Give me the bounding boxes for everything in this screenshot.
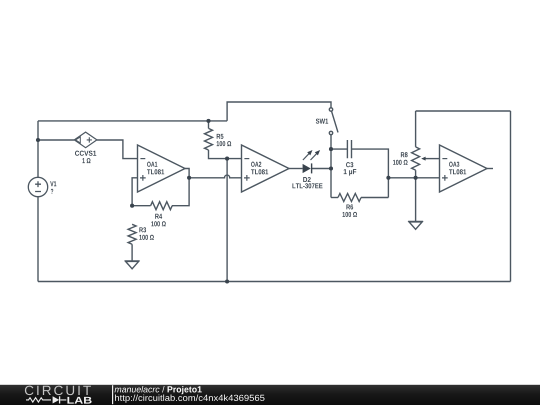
logo doodle wire bbox=[26, 398, 66, 402]
label OA3 bbox=[449, 162, 459, 167]
label C3 value bbox=[344, 169, 357, 175]
footer separator bbox=[112, 385, 114, 404]
LED arrowhead 2 bbox=[315, 150, 320, 155]
logo CIRCUIT bbox=[25, 386, 91, 395]
label R5 bbox=[217, 134, 224, 139]
wire OA1 out to OA2 plus with hop bbox=[189, 175, 241, 178]
op-amp OA1 bbox=[138, 145, 186, 192]
op-amp OA3 bbox=[440, 145, 488, 192]
R8 wiper arrowhead bbox=[421, 157, 425, 161]
junction node OA2 minus bbox=[225, 157, 229, 161]
wire to OA3 plus bbox=[388, 177, 439, 179]
wire C3 right down to R6 bbox=[352, 149, 389, 197]
wire C3 left bbox=[331, 148, 347, 150]
junction node C3 left bbox=[329, 147, 333, 151]
wire left vertical below V1 bbox=[37, 197, 39, 282]
label D2 bbox=[303, 177, 311, 182]
label R3 bbox=[139, 227, 146, 232]
junction node D2 cathode bbox=[329, 166, 333, 170]
junction node bottom rail bbox=[225, 279, 229, 283]
label OA2 bbox=[251, 162, 261, 167]
wire CCVS1 right to OA1 minus bbox=[97, 140, 138, 159]
source CCVS1 bbox=[74, 132, 97, 148]
label R6 bbox=[346, 204, 353, 209]
label R4 value bbox=[151, 221, 166, 226]
wire SW1 bottom vertical bbox=[330, 135, 332, 198]
wire R6 right lead bbox=[361, 197, 388, 199]
wire R8 top lead bbox=[415, 111, 417, 147]
LED arrowhead 1 bbox=[307, 150, 312, 155]
label C3 bbox=[346, 162, 353, 167]
label V1 bbox=[50, 181, 56, 186]
wire R8 bottom lead bbox=[415, 170, 417, 178]
diode D2 cathode bar bbox=[311, 163, 312, 173]
wire jog to upper rail bbox=[227, 102, 331, 121]
label R5 value bbox=[217, 141, 232, 146]
label OA1 value bbox=[147, 169, 164, 174]
resistor R5 bbox=[205, 128, 213, 150]
LED D2 emission arrows bbox=[303, 153, 318, 160]
label R8 value bbox=[393, 160, 408, 165]
op-amp OA2 bbox=[242, 145, 290, 192]
wire bottom rail bbox=[38, 281, 511, 283]
potentiometer R8 wiper bbox=[425, 158, 440, 160]
junction node at V1/CCVS1 bbox=[36, 138, 40, 142]
wire right vertical bbox=[510, 111, 512, 282]
logo doodle diode bbox=[53, 396, 60, 403]
footer url line bbox=[115, 394, 264, 402]
wire R4 left lead bbox=[132, 205, 151, 207]
wire top-left rail bbox=[38, 120, 227, 122]
footer credit line bbox=[115, 386, 202, 394]
ground (below R3) bbox=[125, 244, 140, 269]
junction node OA3 plus bbox=[414, 176, 418, 180]
junction node C3 right bbox=[386, 176, 390, 180]
junction node OA1 output bbox=[187, 176, 191, 180]
label R4 bbox=[155, 214, 162, 219]
wire junction to bottom rail bbox=[226, 159, 228, 282]
source V1 bbox=[28, 177, 47, 196]
ground (below OA3 plus) bbox=[408, 221, 423, 229]
wire R5 bottom to OA2 minus bbox=[209, 150, 242, 159]
junction node R3/R4/OA1+ bbox=[130, 204, 134, 208]
resistor R8 bbox=[412, 147, 420, 170]
label OA3 value bbox=[449, 169, 466, 174]
label V1 value bbox=[51, 189, 53, 194]
resistor R6 bbox=[338, 194, 361, 202]
wire left vertical above V1 bbox=[37, 121, 39, 177]
resistor R3 bbox=[128, 224, 136, 244]
wire top-right rail bbox=[416, 110, 511, 112]
resistor R4 bbox=[151, 202, 173, 210]
switch SW1 terminals bbox=[329, 108, 332, 111]
diode D2 body bbox=[303, 164, 311, 173]
wire D2 cathode to node bbox=[312, 168, 331, 170]
junction node R5 top bbox=[206, 119, 210, 123]
label SW1 bbox=[316, 119, 328, 124]
label OA1 bbox=[147, 162, 157, 167]
label D2 value bbox=[292, 183, 322, 188]
footer bar bbox=[0, 385, 540, 405]
wire node A to CCVS1 left bbox=[38, 139, 74, 141]
label CCVS1 bbox=[75, 151, 96, 156]
label OA2 value bbox=[251, 169, 268, 174]
label R6 value bbox=[343, 212, 358, 217]
wire R5 top lead bbox=[208, 121, 210, 128]
wire OA1 output stub bbox=[172, 169, 189, 206]
capacitor C3 bbox=[347, 140, 351, 158]
wire OA1 plus stub down bbox=[132, 178, 137, 206]
label R8 bbox=[401, 152, 408, 157]
wire SW1 blade bbox=[332, 111, 338, 132]
label R3 value bbox=[139, 235, 154, 240]
wire R6 left lead bbox=[331, 197, 338, 199]
logo LAB bbox=[67, 397, 91, 404]
wire OA3 output stub bbox=[487, 168, 493, 170]
wire OA3 plus junction to ground bbox=[415, 178, 417, 222]
label CCVS1 value bbox=[82, 158, 90, 163]
wire OA2 output to D2 anode bbox=[289, 168, 303, 170]
